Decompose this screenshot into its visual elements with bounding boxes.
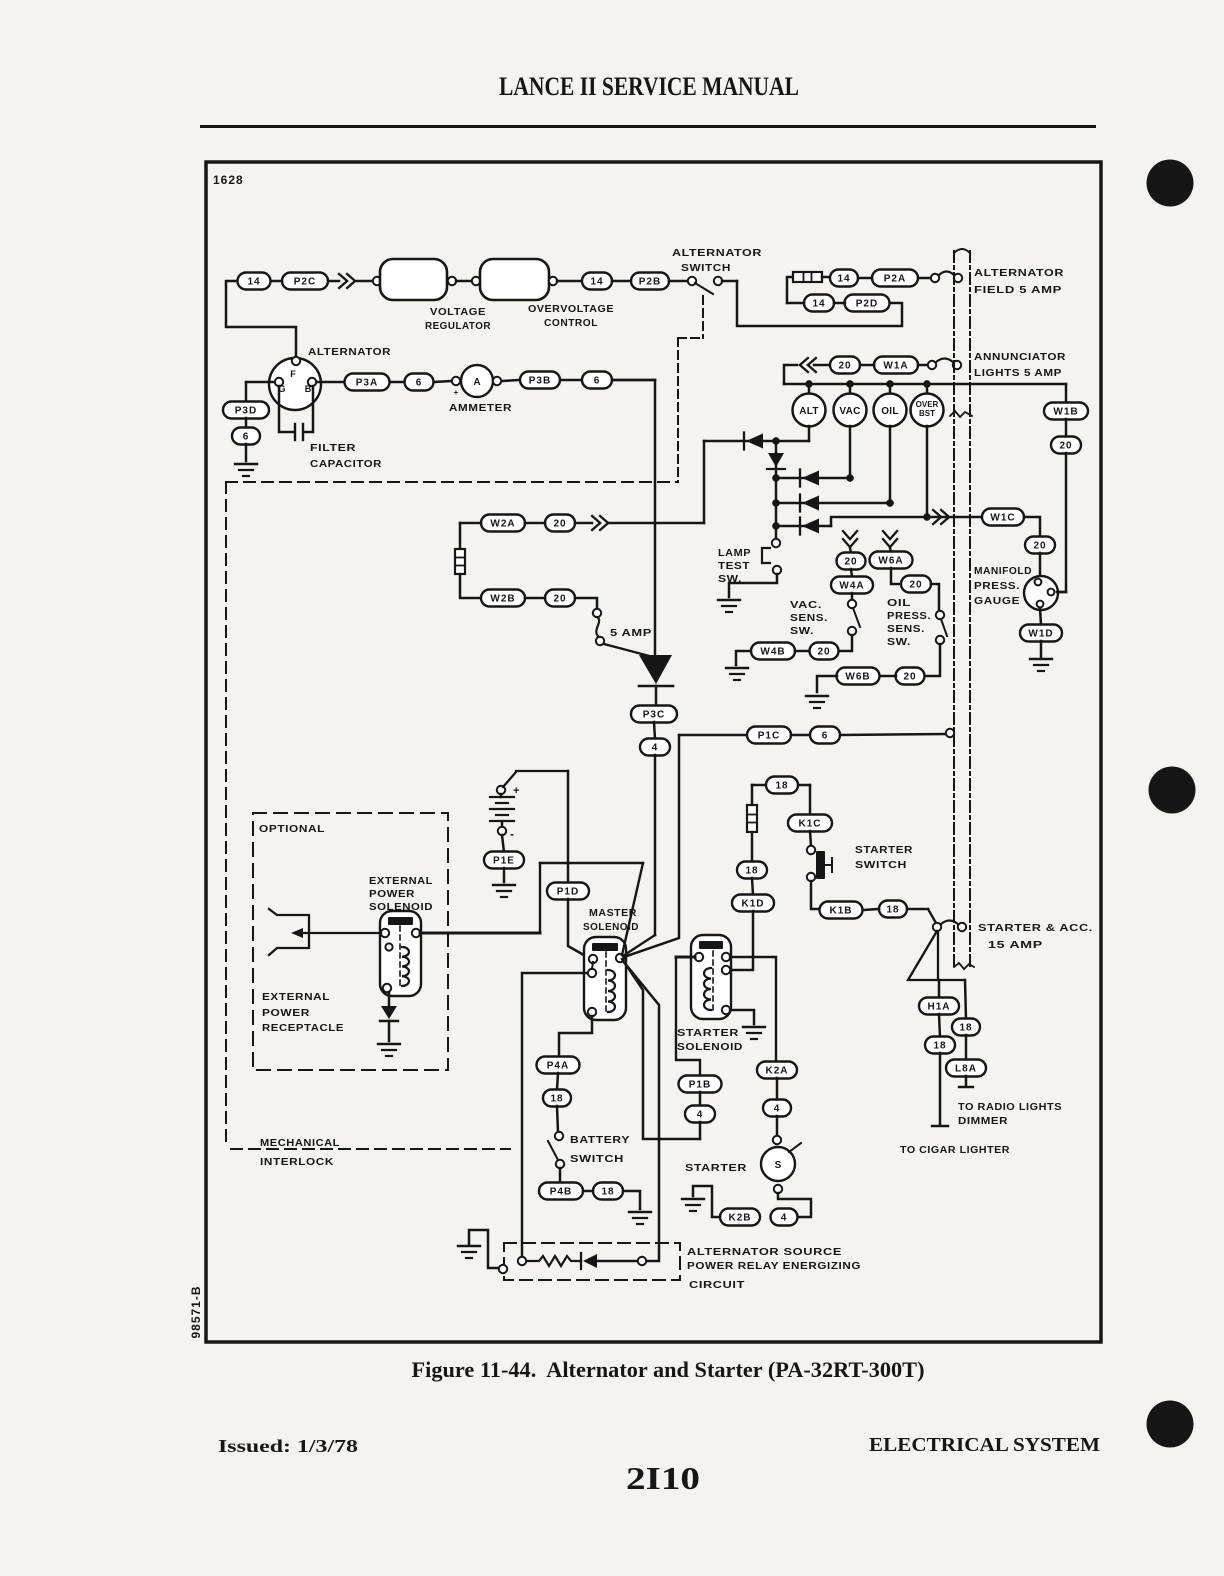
svg-text:20: 20: [553, 594, 566, 605]
svg-text:18: 18: [886, 905, 899, 916]
svg-text:REGULATOR: REGULATOR: [425, 321, 491, 332]
svg-text:SOLENOID: SOLENOID: [583, 922, 639, 933]
svg-text:F: F: [290, 369, 296, 379]
svg-text:OVER: OVER: [916, 400, 939, 409]
svg-text:4: 4: [697, 1110, 704, 1121]
svg-text:20: 20: [903, 672, 916, 683]
svg-text:SW.: SW.: [887, 637, 911, 648]
svg-text:W6A: W6A: [878, 556, 903, 567]
svg-text:POWER RELAY ENERGIZING: POWER RELAY ENERGIZING: [687, 1261, 861, 1272]
svg-text:MECHANICAL: MECHANICAL: [260, 1138, 340, 1149]
svg-text:18: 18: [775, 781, 788, 792]
svg-text:EXTERNAL: EXTERNAL: [369, 876, 433, 887]
svg-text:VAC.: VAC.: [790, 600, 822, 611]
svg-text:EXTERNAL: EXTERNAL: [262, 992, 330, 1003]
svg-text:K1C: K1C: [798, 819, 821, 830]
svg-text:K1B: K1B: [829, 906, 852, 917]
svg-text:P4A: P4A: [547, 1061, 569, 1072]
svg-text:14: 14: [812, 299, 825, 310]
svg-text:ALTERNATOR: ALTERNATOR: [974, 268, 1064, 279]
svg-text:P2B: P2B: [639, 277, 661, 288]
svg-text:W1D: W1D: [1028, 629, 1053, 640]
svg-text:W4B: W4B: [760, 647, 785, 658]
svg-text:P3D: P3D: [235, 406, 257, 417]
svg-text:OIL: OIL: [881, 406, 899, 417]
svg-text:W1C: W1C: [990, 513, 1015, 524]
svg-text:SWITCH: SWITCH: [570, 1154, 624, 1165]
svg-text:15 AMP: 15 AMP: [988, 940, 1043, 951]
svg-text:FILTER: FILTER: [310, 443, 356, 454]
svg-text:P2C: P2C: [294, 277, 316, 288]
svg-text:PRESS.: PRESS.: [974, 581, 1020, 592]
svg-text:P2D: P2D: [856, 299, 878, 310]
svg-text:P2A: P2A: [884, 274, 906, 285]
svg-text:P3B: P3B: [529, 376, 551, 387]
svg-text:VAC: VAC: [839, 406, 860, 417]
svg-text:OIL: OIL: [887, 598, 911, 609]
svg-text:2I10: 2I10: [626, 1460, 700, 1496]
svg-text:P4B: P4B: [550, 1187, 572, 1198]
svg-text:18: 18: [601, 1187, 614, 1198]
svg-text:SENS.: SENS.: [887, 624, 925, 635]
svg-text:TO CIGAR LIGHTER: TO CIGAR LIGHTER: [900, 1145, 1010, 1156]
svg-text:POWER: POWER: [262, 1008, 310, 1019]
svg-text:GAUGE: GAUGE: [974, 596, 1020, 607]
svg-text:Figure 11-44. Alternator and: Figure 11-44. Alternator and Starter (PA…: [412, 1357, 925, 1382]
svg-text:K2A: K2A: [765, 1066, 788, 1077]
svg-text:L8A: L8A: [955, 1064, 977, 1075]
svg-text:-: -: [510, 827, 514, 841]
svg-text:98571-B: 98571-B: [189, 1285, 203, 1338]
svg-text:SOLENOID: SOLENOID: [677, 1042, 743, 1053]
svg-text:18: 18: [959, 1023, 972, 1034]
svg-text:STARTER: STARTER: [677, 1028, 739, 1039]
svg-text:W2B: W2B: [490, 594, 515, 605]
svg-text:W1B: W1B: [1053, 407, 1078, 418]
svg-text:LAMP: LAMP: [718, 548, 751, 559]
svg-text:P1E: P1E: [493, 856, 515, 867]
svg-text:FIELD 5 AMP: FIELD 5 AMP: [974, 285, 1062, 296]
svg-text:ALTERNATOR: ALTERNATOR: [308, 347, 391, 358]
svg-text:W6B: W6B: [845, 672, 870, 683]
svg-text:+: +: [513, 785, 519, 797]
svg-text:P1D: P1D: [557, 887, 579, 898]
svg-text:W4A: W4A: [839, 581, 864, 592]
svg-text:OVERVOLTAGE: OVERVOLTAGE: [528, 304, 614, 315]
svg-text:14: 14: [837, 274, 850, 285]
svg-text:1628: 1628: [213, 173, 244, 187]
svg-text:SWITCH: SWITCH: [855, 860, 907, 871]
svg-text:6: 6: [822, 731, 829, 742]
svg-text:SOLENOID: SOLENOID: [369, 902, 433, 913]
svg-text:STARTER: STARTER: [855, 845, 913, 856]
svg-text:20: 20: [838, 361, 851, 372]
svg-text:P3C: P3C: [643, 710, 665, 721]
svg-text:H1A: H1A: [927, 1002, 950, 1013]
svg-text:20: 20: [817, 647, 830, 658]
svg-text:S: S: [775, 1160, 782, 1171]
svg-text:20: 20: [909, 580, 922, 591]
svg-text:PRESS.: PRESS.: [887, 611, 931, 622]
svg-text:20: 20: [1033, 541, 1046, 552]
svg-text:W1A: W1A: [883, 361, 908, 372]
svg-text:LANCE II SERVICE MANUAL: LANCE II SERVICE MANUAL: [499, 72, 799, 101]
svg-text:+: +: [454, 388, 459, 397]
svg-text:ALTERNATOR: ALTERNATOR: [672, 248, 762, 259]
svg-text:B: B: [305, 384, 312, 394]
svg-text:OPTIONAL: OPTIONAL: [259, 824, 325, 835]
svg-text:K2B: K2B: [728, 1213, 751, 1224]
svg-text:INTERLOCK: INTERLOCK: [260, 1157, 334, 1168]
svg-text:14: 14: [590, 277, 603, 288]
svg-text:18: 18: [550, 1094, 563, 1105]
svg-text:AMMETER: AMMETER: [449, 403, 512, 414]
svg-text:K1D: K1D: [741, 899, 764, 910]
svg-text:LIGHTS 5 AMP: LIGHTS 5 AMP: [974, 368, 1062, 379]
svg-text:CAPACITOR: CAPACITOR: [310, 459, 382, 470]
svg-text:SENS.: SENS.: [790, 613, 828, 624]
svg-text:DIMMER: DIMMER: [958, 1116, 1008, 1127]
svg-text:P1B: P1B: [689, 1080, 711, 1091]
svg-text:SWITCH: SWITCH: [681, 263, 731, 274]
svg-text:BATTERY: BATTERY: [570, 1135, 630, 1146]
svg-text:TO RADIO LIGHTS: TO RADIO LIGHTS: [958, 1102, 1062, 1113]
svg-text:P1C: P1C: [758, 731, 780, 742]
svg-text:BST: BST: [919, 409, 935, 418]
svg-text:STARTER & ACC.: STARTER & ACC.: [978, 923, 1093, 934]
svg-text:20: 20: [844, 557, 857, 568]
svg-text:SW.: SW.: [718, 574, 742, 585]
svg-text:TEST: TEST: [718, 561, 750, 572]
svg-text:W2A: W2A: [490, 519, 515, 530]
svg-text:CONTROL: CONTROL: [544, 318, 598, 329]
svg-text:ANNUNCIATOR: ANNUNCIATOR: [974, 352, 1066, 363]
svg-text:6: 6: [243, 432, 250, 443]
svg-text:Issued: 1/3/78: Issued: 1/3/78: [218, 1436, 358, 1456]
svg-text:4: 4: [774, 1104, 781, 1115]
svg-text:VOLTAGE: VOLTAGE: [430, 307, 486, 318]
svg-text:RECEPTACLE: RECEPTACLE: [262, 1023, 344, 1034]
svg-text:SW.: SW.: [790, 626, 814, 637]
svg-text:6: 6: [594, 376, 601, 387]
svg-text:4: 4: [781, 1213, 788, 1224]
svg-text:ELECTRICAL SYSTEM: ELECTRICAL SYSTEM: [869, 1434, 1100, 1456]
svg-text:CIRCUIT: CIRCUIT: [689, 1280, 745, 1291]
svg-text:ALTERNATOR SOURCE: ALTERNATOR SOURCE: [687, 1247, 842, 1258]
svg-text:A: A: [473, 377, 480, 388]
svg-text:20: 20: [1059, 441, 1072, 452]
svg-text:POWER: POWER: [369, 889, 415, 900]
svg-text:STARTER: STARTER: [685, 1163, 747, 1174]
svg-text:5 AMP: 5 AMP: [610, 628, 652, 639]
svg-text:MANIFOLD: MANIFOLD: [974, 566, 1032, 577]
svg-text:18: 18: [745, 866, 758, 877]
svg-text:4: 4: [652, 743, 659, 754]
svg-text:ALT: ALT: [799, 406, 819, 417]
svg-text:20: 20: [553, 519, 566, 530]
svg-text:6: 6: [416, 378, 423, 389]
svg-text:14: 14: [247, 277, 260, 288]
svg-text:P3A: P3A: [356, 378, 378, 389]
svg-text:18: 18: [933, 1041, 946, 1052]
